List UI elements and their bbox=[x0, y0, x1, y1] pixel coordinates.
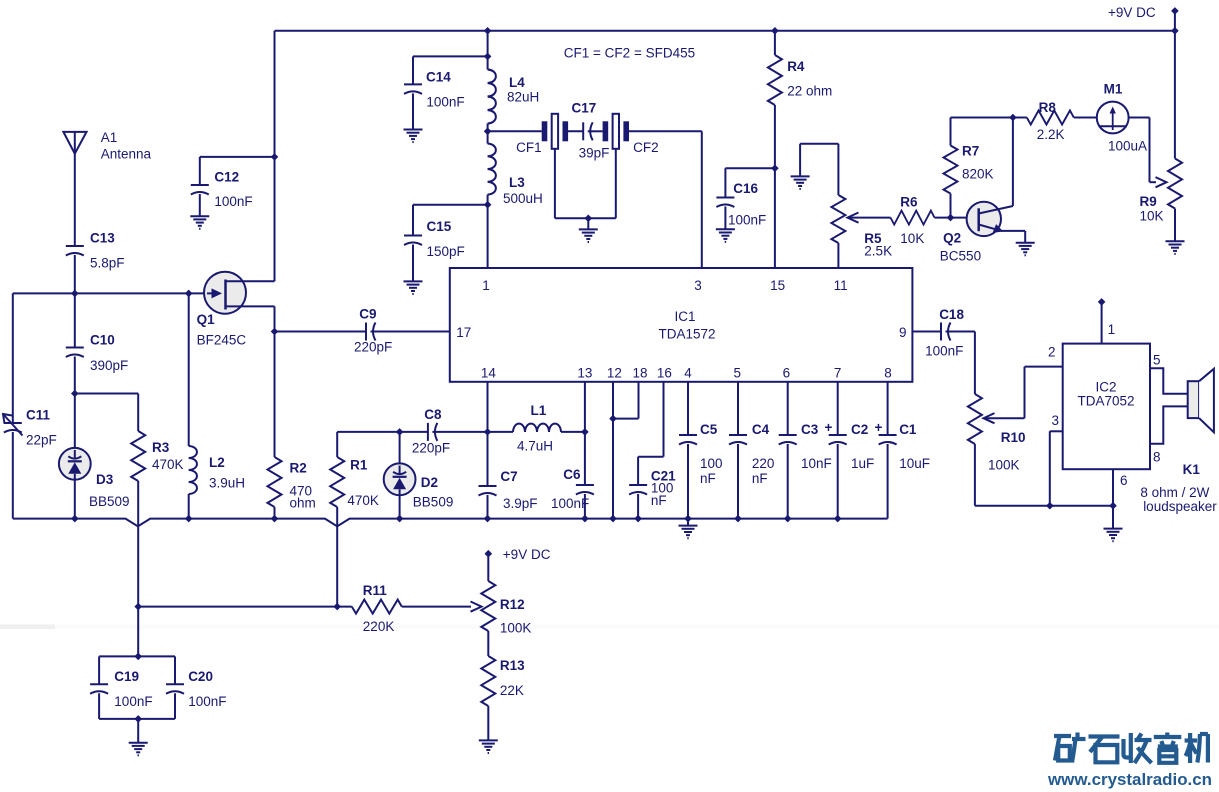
wire C16 top bbox=[724, 168, 726, 197]
svg-text:3.9pF: 3.9pF bbox=[503, 496, 538, 511]
svg-text:CF2: CF2 bbox=[633, 140, 659, 155]
scan band artifact bbox=[0, 625, 1219, 630]
wire R12 to R13 bbox=[487, 631, 489, 656]
node +9V DC top rail bbox=[275, 30, 1175, 32]
svg-text:5: 5 bbox=[1153, 353, 1161, 368]
junction rail / D3 bbox=[71, 515, 79, 523]
junction rail / C4 bbox=[734, 515, 742, 523]
svg-text:L4: L4 bbox=[509, 75, 525, 90]
wire R13 to ground bbox=[487, 706, 489, 740]
junction C15 branch bbox=[484, 201, 492, 209]
svg-text:R9: R9 bbox=[1140, 194, 1157, 209]
svg-text:22K: 22K bbox=[500, 683, 524, 698]
svg-text:2: 2 bbox=[1048, 345, 1056, 360]
wire C10 to D3 node bbox=[74, 357, 76, 394]
svg-text:17: 17 bbox=[456, 325, 471, 340]
svg-text:A1: A1 bbox=[101, 130, 118, 145]
wire pin 7 down bbox=[837, 382, 839, 435]
junction rail / D2 bbox=[396, 515, 404, 523]
svg-text:9: 9 bbox=[899, 325, 907, 340]
svg-text:22 ohm: 22 ohm bbox=[787, 84, 832, 99]
loudspeaker K1 bbox=[1188, 381, 1199, 418]
svg-text:R7: R7 bbox=[962, 144, 979, 159]
wire top to R7 bbox=[950, 118, 952, 146]
svg-text:IC2: IC2 bbox=[1095, 380, 1116, 395]
wire Q2 collector up bbox=[1012, 118, 1014, 207]
node +9V DC IC2 bbox=[1098, 298, 1106, 306]
capacitor C9 220pF bbox=[366, 323, 376, 341]
resistor R13 22K bbox=[481, 656, 495, 706]
wire C18 out bbox=[946, 331, 975, 333]
svg-text:15: 15 bbox=[770, 278, 785, 293]
svg-text:150pF: 150pF bbox=[427, 244, 465, 259]
junction D2 node bbox=[396, 428, 404, 436]
antenna A1 bbox=[63, 132, 86, 154]
svg-text:500uH: 500uH bbox=[503, 191, 543, 206]
capacitor C16 100nF bbox=[716, 198, 734, 208]
wire +9V to R12 bbox=[487, 554, 489, 581]
wire C1 to rail bbox=[887, 444, 889, 519]
wire C14 to ground bbox=[412, 93, 414, 129]
svg-text:R1: R1 bbox=[350, 458, 368, 473]
junction R7/base bbox=[947, 214, 955, 222]
svg-text:390pF: 390pF bbox=[90, 358, 128, 373]
svg-text:6: 6 bbox=[783, 366, 791, 381]
svg-text:8: 8 bbox=[1153, 450, 1161, 465]
svg-text:R10: R10 bbox=[1001, 430, 1026, 445]
capacitor C8 220pF bbox=[428, 423, 438, 441]
resistor R6 10K bbox=[891, 211, 935, 225]
wire L4-L3 bbox=[487, 124, 489, 144]
wire C4 to rail bbox=[737, 444, 739, 519]
wire to CF1 bbox=[488, 130, 542, 132]
wire to R5 bbox=[837, 144, 839, 195]
svg-text:18: 18 bbox=[632, 366, 647, 381]
wire R1-D2-C8-L1 net bbox=[337, 431, 428, 433]
wire R9 wiper bbox=[1150, 181, 1157, 183]
wire Q2 emitter bbox=[1001, 230, 1025, 232]
junction pin3 / rail bbox=[1046, 502, 1054, 510]
wire rail to L4 bbox=[487, 31, 489, 70]
junction C14 branch bbox=[484, 53, 492, 61]
svg-text:100nF: 100nF bbox=[426, 95, 464, 110]
wire C11 top bbox=[12, 293, 14, 423]
wire M1 out bbox=[1129, 117, 1150, 119]
wire C15 to ground bbox=[412, 245, 414, 282]
wire gate node to L2 bbox=[188, 293, 190, 446]
wire pin 16 down bbox=[663, 382, 665, 457]
svg-text:10uF: 10uF bbox=[899, 456, 930, 471]
junction L4/L3/CF1 node bbox=[484, 128, 492, 136]
svg-text:C18: C18 bbox=[939, 307, 964, 322]
wire R8 to M1 bbox=[1074, 117, 1097, 119]
svg-text:C14: C14 bbox=[426, 70, 451, 85]
capacitor C15 150pF bbox=[404, 236, 422, 246]
svg-text:www.crystalradio.cn: www.crystalradio.cn bbox=[1047, 770, 1212, 789]
junction R1 node bbox=[333, 603, 341, 611]
svg-text:nF: nF bbox=[700, 471, 716, 486]
wire R7 top to R8 node bbox=[951, 117, 1013, 119]
svg-text:CF1: CF1 bbox=[516, 140, 542, 155]
wire D3 to rail bbox=[74, 480, 76, 519]
junction L2 node bbox=[185, 290, 193, 298]
wire C11 to rail bbox=[12, 432, 14, 519]
svg-text:C7: C7 bbox=[500, 469, 517, 484]
wire to C9 bbox=[275, 331, 367, 333]
svg-text:nF: nF bbox=[752, 471, 768, 486]
ground Q2 emitter bbox=[1016, 243, 1035, 256]
junction C9 branch bbox=[271, 328, 279, 336]
wire CF1 to C17 bbox=[567, 130, 583, 132]
wire R10 wiper bbox=[984, 417, 1025, 419]
wire C20 bottom bbox=[174, 693, 176, 719]
wire emitter to ground bbox=[1024, 231, 1026, 243]
svg-text:TDA7052: TDA7052 bbox=[1077, 394, 1134, 409]
wire C20 top bbox=[174, 656, 176, 684]
wire pin14 col to C7 bbox=[487, 432, 489, 486]
svg-text:4.7uH: 4.7uH bbox=[517, 439, 553, 454]
diode D3 varactor BB509 bbox=[59, 448, 91, 480]
wire to C10 bbox=[74, 293, 76, 347]
ground IC2 bbox=[1104, 529, 1123, 542]
svg-text:C4: C4 bbox=[752, 422, 770, 437]
resistor R10 100K potentiometer bbox=[968, 394, 982, 444]
svg-text:L3: L3 bbox=[509, 175, 525, 190]
svg-text:470K: 470K bbox=[347, 493, 379, 508]
svg-text:C6: C6 bbox=[563, 467, 581, 482]
svg-text:3.9uH: 3.9uH bbox=[209, 476, 245, 491]
svg-text:1: 1 bbox=[1108, 322, 1116, 337]
svg-text:10nF: 10nF bbox=[801, 456, 832, 471]
wire IC2 pin 8 to speaker bbox=[1150, 406, 1188, 443]
svg-text:R4: R4 bbox=[787, 59, 805, 74]
svg-text:10K: 10K bbox=[1140, 209, 1164, 224]
junction antenna node bbox=[71, 290, 79, 298]
svg-text:nF: nF bbox=[651, 493, 667, 508]
svg-text:R13: R13 bbox=[500, 658, 525, 673]
wire pin 5 down bbox=[737, 382, 739, 435]
wire IC2 pin 5 to speaker bbox=[1150, 368, 1188, 394]
wire rail to ground bbox=[687, 519, 689, 526]
wire C6 to rail bbox=[584, 494, 586, 519]
svg-text:D3: D3 bbox=[96, 472, 114, 487]
R12 wiper arrow bbox=[471, 602, 482, 612]
wire Q1 gate line bbox=[13, 292, 207, 294]
wire R1 through rail hop to R11 node bbox=[336, 507, 338, 607]
junction rail / C3 bbox=[784, 515, 792, 523]
svg-text:C12: C12 bbox=[214, 170, 239, 185]
capacitor C12 bbox=[191, 185, 209, 195]
wire L3 to IC1 pin 1 bbox=[487, 195, 489, 268]
svg-text:220: 220 bbox=[752, 456, 775, 471]
wire rail to R4 bbox=[774, 31, 776, 55]
junction CF ground bbox=[585, 215, 593, 223]
svg-text:+: + bbox=[825, 420, 833, 435]
svg-text:C5: C5 bbox=[700, 422, 718, 437]
wire C14 top bbox=[412, 56, 414, 84]
junction rail / C6 bbox=[581, 515, 589, 523]
resistor R3 470K bbox=[131, 431, 145, 481]
junction C19/C20 bottom bbox=[134, 715, 142, 723]
wire C9 to IC1 pin 17 bbox=[371, 331, 451, 333]
junction R8/collector bbox=[1009, 114, 1017, 122]
wire C7 to rail bbox=[487, 495, 489, 519]
wire R10 to right rail bbox=[974, 444, 976, 506]
capacitor C14 100nF bbox=[404, 84, 422, 94]
ground R5 bracket bbox=[791, 176, 810, 189]
svg-text:BF245C: BF245C bbox=[197, 333, 247, 348]
wire to C21 bbox=[637, 457, 639, 485]
wire wiper up to pin 2 bbox=[1024, 367, 1026, 419]
wire rail to IC2 ground bbox=[1112, 506, 1114, 529]
wire to C15 bbox=[413, 204, 488, 206]
svg-text:12: 12 bbox=[607, 366, 622, 381]
svg-text:R6: R6 bbox=[900, 195, 918, 210]
svg-text:220K: 220K bbox=[363, 619, 395, 634]
wire to R3 bbox=[137, 394, 139, 432]
svg-text:8: 8 bbox=[884, 366, 892, 381]
capacitor C10 bbox=[66, 348, 84, 358]
wire R3 through rail hop to R11 node bbox=[137, 481, 139, 606]
svg-text:D2: D2 bbox=[421, 475, 438, 490]
ground R9 bbox=[1166, 241, 1185, 254]
wire pin 8 down bbox=[887, 382, 889, 435]
wire C15 top bbox=[412, 205, 414, 236]
wire C16 to ground bbox=[724, 207, 726, 230]
wire C2 to rail bbox=[837, 444, 839, 519]
wire CF bottoms join bbox=[555, 217, 616, 219]
svg-text:Antenna: Antenna bbox=[101, 147, 152, 162]
wire R2 to rail bbox=[274, 507, 276, 519]
ceramic filter CF2 bbox=[603, 114, 629, 149]
wire down to R10 bbox=[974, 332, 976, 395]
resistor R8 2.2K bbox=[1027, 111, 1074, 125]
wire C13 to gate line bbox=[74, 255, 76, 293]
svg-text:L2: L2 bbox=[209, 455, 225, 470]
capacitor C18 100nF bbox=[941, 323, 951, 341]
ground main rail bbox=[679, 526, 698, 539]
svg-text:R11: R11 bbox=[363, 583, 388, 598]
wire D2 to rail bbox=[399, 495, 401, 518]
wire C3 to rail bbox=[787, 444, 789, 519]
wire C5 to rail bbox=[687, 444, 689, 519]
wire to CF ground bbox=[587, 218, 589, 229]
watermark logo crystalradio bbox=[1054, 733, 1208, 764]
R5 wiper arrow bbox=[848, 213, 859, 223]
wire pin 18 jog bbox=[613, 418, 639, 420]
ground C14 bbox=[404, 130, 423, 143]
svg-text:100nF: 100nF bbox=[114, 694, 152, 709]
resistor R11 220K bbox=[352, 600, 402, 614]
wire C12 top bbox=[199, 157, 201, 185]
junction R3/C19 node bbox=[134, 603, 142, 611]
wire main ground rail with hops bbox=[13, 519, 888, 527]
junction C19/C20 top bbox=[134, 653, 142, 661]
wire IC2 pin 1 supply bbox=[1101, 302, 1103, 344]
capacitor C19 100nF bbox=[90, 684, 108, 694]
svg-text:M1: M1 bbox=[1104, 82, 1123, 97]
svg-text:1: 1 bbox=[482, 278, 490, 293]
wire to R3 bbox=[75, 393, 138, 395]
svg-text:820K: 820K bbox=[962, 167, 994, 182]
junction rail / L2 bbox=[185, 515, 193, 523]
wire to R8 bbox=[1013, 117, 1027, 119]
ground R13 bbox=[479, 740, 498, 753]
wire down to R9 wiper bbox=[1149, 118, 1151, 183]
junction C12 branch bbox=[271, 153, 279, 161]
svg-text:TDA1572: TDA1572 bbox=[658, 327, 715, 342]
capacitor C20 100nF bbox=[166, 684, 184, 694]
junction rail / R2 bbox=[271, 515, 279, 523]
svg-text:6: 6 bbox=[1120, 473, 1128, 488]
svg-text:5: 5 bbox=[733, 366, 741, 381]
wire pin 14 down bbox=[487, 382, 489, 432]
inductor L2 3.9uH bbox=[189, 446, 197, 494]
svg-text:1uF: 1uF bbox=[851, 456, 874, 471]
wire Q1 source to R2 bbox=[274, 306, 276, 457]
svg-text:CF1 = CF2 = SFD455: CF1 = CF2 = SFD455 bbox=[564, 46, 695, 61]
svg-text:2.5K: 2.5K bbox=[864, 244, 892, 259]
svg-text:100: 100 bbox=[700, 456, 723, 471]
wire R6 to Q2 base bbox=[935, 217, 979, 219]
wire to C16 bbox=[725, 167, 775, 169]
svg-text:100uA: 100uA bbox=[1108, 139, 1147, 154]
wire R4 to IC1 pin 15 bbox=[774, 105, 776, 268]
junction rail / C21 bbox=[634, 515, 642, 523]
junction C16 branch bbox=[771, 165, 779, 173]
wire C17 to CF2 bbox=[588, 130, 603, 132]
wire pin 4 down bbox=[687, 382, 689, 435]
resistor R2 470 ohm bbox=[268, 457, 282, 507]
svg-text:C10: C10 bbox=[90, 333, 115, 348]
svg-text:C9: C9 bbox=[359, 307, 376, 322]
wire to C12 bbox=[200, 156, 275, 158]
wire to C14 bbox=[413, 55, 488, 57]
wire C19 top bbox=[98, 656, 100, 684]
svg-text:R3: R3 bbox=[152, 440, 170, 455]
svg-text:C19: C19 bbox=[114, 669, 139, 684]
svg-text:+9V DC: +9V DC bbox=[1108, 5, 1156, 20]
wire R5 to IC1 pin 11 bbox=[837, 243, 839, 268]
svg-text:220pF: 220pF bbox=[412, 441, 450, 456]
junction pin14 column bbox=[484, 428, 492, 436]
wire L1 to pin13 column bbox=[561, 431, 585, 433]
junction pin6 / rail bbox=[1109, 502, 1117, 510]
ground C15 bbox=[404, 281, 423, 294]
junction pin18 join bbox=[609, 415, 617, 423]
wire Q1 drain column bbox=[274, 31, 276, 281]
svg-text:Q1: Q1 bbox=[197, 312, 216, 327]
svg-text:L1: L1 bbox=[531, 403, 547, 418]
svg-text:BC550: BC550 bbox=[940, 249, 981, 264]
wire IC1 pin 9 out bbox=[912, 331, 941, 333]
wire IC2 pin 6 down bbox=[1112, 469, 1114, 506]
svg-text:16: 16 bbox=[657, 366, 672, 381]
junction rail / C5 bbox=[684, 515, 692, 523]
wire to IC2 pin 2 bbox=[1025, 366, 1063, 368]
wire to D2 bbox=[399, 432, 401, 464]
svg-text:3: 3 bbox=[694, 278, 702, 293]
svg-text:ohm: ohm bbox=[290, 496, 316, 511]
wire node to C19/C20 bbox=[137, 607, 139, 657]
svg-text:7: 7 bbox=[834, 366, 842, 381]
svg-text:C8: C8 bbox=[424, 407, 442, 422]
svg-text:R12: R12 bbox=[500, 597, 525, 612]
wire pin 16 jog bbox=[638, 456, 663, 458]
svg-text:K1: K1 bbox=[1183, 462, 1201, 477]
wire to IC1 pin 3 bbox=[701, 131, 703, 268]
svg-text:+9V DC: +9V DC bbox=[503, 547, 551, 562]
svg-text:C16: C16 bbox=[733, 181, 758, 196]
svg-text:C11: C11 bbox=[26, 408, 51, 423]
wire pin 18 down bbox=[638, 382, 640, 419]
svg-text:13: 13 bbox=[577, 366, 592, 381]
wire R5 wiper to R6 bbox=[848, 217, 891, 219]
node +9V DC terminal dot bbox=[1171, 7, 1179, 15]
svg-text:C1: C1 bbox=[899, 422, 917, 437]
svg-text:14: 14 bbox=[481, 366, 497, 381]
svg-text:Q2: Q2 bbox=[943, 231, 961, 246]
wire C8 to pin14 column bbox=[432, 431, 487, 433]
junction rail / C2 bbox=[834, 515, 842, 523]
op-amp U IC2 TDA7052 bbox=[1063, 344, 1150, 470]
ground C19/C20 bbox=[129, 743, 148, 756]
ground C12 bbox=[190, 216, 209, 229]
wire R3 node to R11 bbox=[138, 606, 352, 608]
wire R11 to R12 wiper bbox=[402, 606, 471, 608]
transistor Q1 BF245C JFET bbox=[204, 272, 275, 314]
inductor L4 82uH bbox=[488, 70, 496, 124]
svg-text:100K: 100K bbox=[500, 621, 532, 636]
wire +9V drop to R9 bbox=[1174, 11, 1176, 159]
junction +9V rail / R9 branch bbox=[1171, 27, 1179, 35]
svg-text:4: 4 bbox=[684, 366, 692, 381]
svg-text:loudspeaker: loudspeaker bbox=[1143, 499, 1217, 514]
resistor R9 10K potentiometer bbox=[1168, 159, 1182, 209]
svg-text:100nF: 100nF bbox=[728, 213, 766, 228]
R10 wiper arrow bbox=[984, 413, 995, 423]
ground CF filters bbox=[579, 229, 598, 242]
wire C12 to ground bbox=[199, 194, 201, 216]
wire L2 to rail bbox=[188, 494, 190, 519]
wire C19 bottom bbox=[98, 693, 100, 719]
svg-text:8 ohm / 2W: 8 ohm / 2W bbox=[1140, 485, 1209, 500]
wire C21 to rail bbox=[637, 494, 639, 519]
wire R7 to base node bbox=[950, 194, 952, 218]
svg-text:100nF: 100nF bbox=[188, 694, 226, 709]
wire pin 6 down bbox=[787, 382, 789, 435]
capacitor C13 bbox=[66, 246, 84, 256]
svg-text:10K: 10K bbox=[900, 231, 924, 246]
node +9V DC R12 bbox=[485, 550, 493, 558]
meter M1 100uA bbox=[1097, 102, 1129, 134]
svg-text:C15: C15 bbox=[427, 219, 452, 234]
svg-text:100K: 100K bbox=[988, 458, 1020, 473]
wire bracket to ground bbox=[799, 144, 801, 177]
svg-text:3: 3 bbox=[1052, 413, 1060, 428]
wire IC2 pin 3 stub bbox=[1050, 430, 1063, 432]
svg-text:C2: C2 bbox=[851, 422, 868, 437]
svg-text:2.2K: 2.2K bbox=[1037, 127, 1065, 142]
wire to L1 bbox=[488, 431, 514, 433]
svg-text:5.8pF: 5.8pF bbox=[90, 256, 125, 271]
svg-text:100nF: 100nF bbox=[925, 344, 963, 359]
svg-text:39pF: 39pF bbox=[579, 146, 610, 161]
svg-text:C3: C3 bbox=[801, 422, 819, 437]
svg-text:100nF: 100nF bbox=[551, 496, 589, 511]
wire to D3 bbox=[74, 394, 76, 449]
junction rail / L4 column bbox=[484, 27, 492, 35]
